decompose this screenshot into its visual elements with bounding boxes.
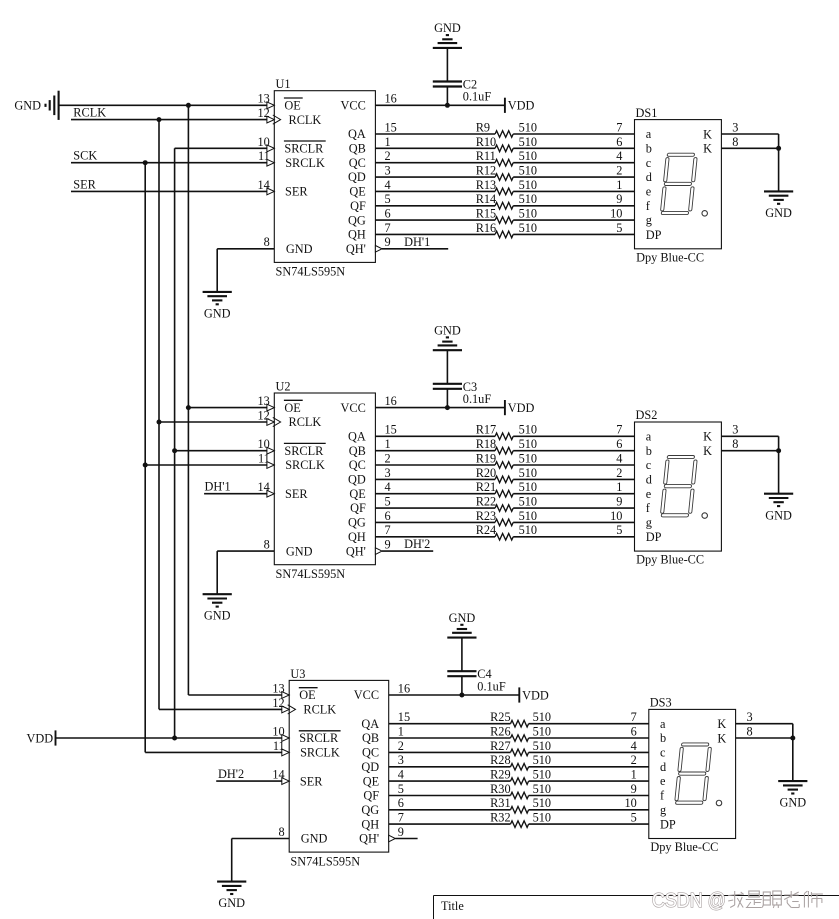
svg-text:510: 510 <box>519 164 537 178</box>
svg-text:8: 8 <box>279 825 285 839</box>
wire U2 QC to R19 <box>375 464 495 466</box>
svg-text:9: 9 <box>616 192 622 206</box>
svg-text:RCLK: RCLK <box>303 703 336 717</box>
wire R25 to DS3 segment <box>529 723 649 725</box>
svg-text:RCLK: RCLK <box>289 113 322 127</box>
svg-text:9: 9 <box>398 825 404 839</box>
svg-text:SN74LS595N: SN74LS595N <box>276 567 346 581</box>
svg-text:16: 16 <box>385 394 397 408</box>
junction K net <box>776 146 781 151</box>
wire U2 QH to R24 <box>375 536 495 538</box>
ground at DS2 <box>764 494 793 523</box>
svg-text:12: 12 <box>258 106 270 120</box>
pin numbers 3 and 8 <box>747 710 753 738</box>
DS3 decimal point <box>716 800 722 806</box>
svg-text:10: 10 <box>610 207 622 221</box>
wire VDD to U3 pin10 <box>56 737 283 739</box>
wire OE bus to U3 pin13 <box>188 694 282 696</box>
svg-text:QH': QH' <box>346 544 366 558</box>
svg-text:R19: R19 <box>476 451 497 465</box>
resistor R17 510 <box>476 423 537 440</box>
U2 input pin arrows <box>267 404 281 497</box>
svg-text:VCC: VCC <box>341 401 366 415</box>
svg-text:6: 6 <box>385 509 391 523</box>
wire VCC pin16 U2 <box>375 407 505 409</box>
svg-text:510: 510 <box>519 451 537 465</box>
wire ground to C3 <box>446 350 448 384</box>
svg-text:7: 7 <box>631 710 637 724</box>
svg-text:10: 10 <box>610 509 622 523</box>
svg-text:d: d <box>646 170 652 184</box>
svg-text:R20: R20 <box>476 466 497 480</box>
svg-text:GND: GND <box>218 896 245 910</box>
svg-text:R18: R18 <box>476 437 497 451</box>
U1 pin labels <box>284 98 366 256</box>
svg-text:SRCLR: SRCLR <box>299 731 339 745</box>
wire U3 QD to R28 <box>389 766 511 768</box>
node DH'1 at U2 SER <box>204 480 267 494</box>
svg-text:10: 10 <box>625 796 637 810</box>
svg-text:5: 5 <box>616 221 622 235</box>
junction RCLK bus at U2 <box>157 420 162 425</box>
resistor R13 510 <box>476 178 537 195</box>
IC U3 SN74LS595N <box>289 667 389 869</box>
svg-text:2: 2 <box>631 753 637 767</box>
junction SCK bus at U2 <box>143 463 148 468</box>
wire R17 to DS2 segment <box>513 435 634 437</box>
svg-text:QH: QH <box>348 228 366 242</box>
svg-text:11: 11 <box>258 451 270 465</box>
wire DS2 pin8 K <box>721 450 778 452</box>
junction C3/VCC <box>445 405 450 410</box>
pin numbers 3 and 8 <box>732 423 738 451</box>
svg-text:g: g <box>646 516 652 530</box>
resistor R30 510 <box>490 782 551 799</box>
wire DS2 pin3 K <box>721 435 778 437</box>
wire R29 to DS3 segment <box>529 780 649 782</box>
svg-text:GND: GND <box>449 611 476 625</box>
svg-text:4: 4 <box>398 768 404 782</box>
svg-text:R22: R22 <box>476 494 497 508</box>
svg-text:SRCLR: SRCLR <box>284 444 324 458</box>
svg-text:R31: R31 <box>490 796 511 810</box>
wire DS3 pin8 K <box>736 737 793 739</box>
svg-text:1: 1 <box>631 768 637 782</box>
svg-text:b: b <box>660 731 666 745</box>
wire U2 QD to R20 <box>375 478 495 480</box>
svg-text:3: 3 <box>747 710 753 724</box>
wire U2 QG to R23 <box>375 521 495 523</box>
svg-text:3: 3 <box>732 120 738 134</box>
junction K net <box>776 448 781 453</box>
svg-text:6: 6 <box>616 437 622 451</box>
wire U2 QE to R21 <box>375 493 495 495</box>
wire R32 to DS3 segment <box>529 823 649 825</box>
svg-text:U1: U1 <box>276 77 291 91</box>
wire VCC pin16 U1 <box>375 104 505 106</box>
ground above C4 <box>447 611 476 638</box>
svg-text:c: c <box>646 156 652 170</box>
svg-text:QD: QD <box>361 760 379 774</box>
wire RCLK bus to U2 pin12 <box>159 421 267 423</box>
junction K net <box>790 736 795 741</box>
junction RCLK bus <box>157 117 162 122</box>
wire OE bus to U2 pin13 <box>188 407 267 409</box>
svg-text:QC: QC <box>349 156 366 170</box>
resistor R28 510 <box>490 753 551 770</box>
resistor R32 510 <box>490 811 551 828</box>
wire K common down <box>778 436 780 493</box>
wire R10 to DS1 segment <box>513 147 634 149</box>
wire R22 to DS2 segment <box>513 507 634 509</box>
svg-text:510: 510 <box>533 753 551 767</box>
ground above C3 <box>433 323 462 350</box>
svg-text:3: 3 <box>398 753 404 767</box>
wire U1 QF to R14 <box>375 205 495 207</box>
resistor R24 510 <box>476 523 537 540</box>
svg-text:DH'2: DH'2 <box>404 537 430 551</box>
svg-text:DS2: DS2 <box>636 408 658 422</box>
svg-text:6: 6 <box>631 724 637 738</box>
svg-text:R29: R29 <box>490 768 511 782</box>
wire U3 QC to R27 <box>389 751 511 753</box>
svg-text:9: 9 <box>385 538 391 552</box>
svg-text:R27: R27 <box>490 739 511 753</box>
U3 right pin numbers <box>398 681 410 839</box>
capacitor C3 0.1uF <box>433 380 492 406</box>
svg-text:15: 15 <box>385 120 397 134</box>
wire U2 QA to R17 <box>375 435 495 437</box>
svg-text:QB: QB <box>349 142 366 156</box>
power VDD at U2 VCC <box>505 400 535 415</box>
svg-text:K: K <box>717 717 726 731</box>
wire R11 to DS1 segment <box>513 162 634 164</box>
svg-text:7: 7 <box>616 120 622 134</box>
wire U3 QA to R25 <box>389 723 511 725</box>
wire U1 QD to R12 <box>375 176 495 178</box>
resistor R12 510 <box>476 164 537 181</box>
svg-text:e: e <box>646 487 652 501</box>
svg-text:VDD: VDD <box>508 401 535 415</box>
wire U3 GND pin8 <box>232 838 290 840</box>
svg-text:R17: R17 <box>476 423 497 437</box>
U2 QH' output arrow <box>375 548 382 555</box>
wire U3 QF to R30 <box>389 795 511 797</box>
wire R27 to DS3 segment <box>529 751 649 753</box>
svg-text:510: 510 <box>519 120 537 134</box>
ground at U2 <box>203 594 232 622</box>
resistor R9 510 <box>476 120 537 137</box>
wire U1 QE to R13 <box>375 190 495 192</box>
wire U3 QB to R26 <box>389 737 511 739</box>
svg-text:8: 8 <box>264 235 270 249</box>
wire U1 GND down <box>216 249 218 292</box>
svg-text:RCLK: RCLK <box>73 106 106 120</box>
resistor R21 510 <box>476 480 537 497</box>
svg-text:c: c <box>660 746 666 760</box>
title block <box>434 896 839 919</box>
svg-text:DH'1: DH'1 <box>205 480 231 494</box>
svg-text:VDD: VDD <box>508 99 535 113</box>
ground at U3 <box>217 882 246 910</box>
svg-text:14: 14 <box>258 178 270 192</box>
svg-text:2: 2 <box>616 466 622 480</box>
wire R30 to DS3 segment <box>529 795 649 797</box>
svg-text:g: g <box>660 803 666 817</box>
svg-text:b: b <box>646 444 652 458</box>
resistor R19 510 <box>476 451 537 468</box>
wire SCK bus vertical <box>144 163 146 753</box>
svg-text:3: 3 <box>732 423 738 437</box>
svg-text:510: 510 <box>519 192 537 206</box>
resistor R23 510 <box>476 509 537 526</box>
resistor R31 510 <box>490 796 551 813</box>
watermark CSDN <box>652 890 823 912</box>
display DS1 Dpy Blue-CC <box>635 106 722 265</box>
wire DS1 pin8 K <box>721 147 778 149</box>
node SER <box>71 177 267 191</box>
wire K common down <box>778 134 780 191</box>
pin numbers 3 and 8 <box>732 120 738 148</box>
U3 input pin arrows <box>282 692 296 785</box>
node DH'2 wire from U2 QH' <box>382 537 433 551</box>
svg-text:R26: R26 <box>490 724 511 738</box>
svg-text:16: 16 <box>385 92 397 106</box>
svg-text:e: e <box>660 774 666 788</box>
node SCK <box>71 149 267 163</box>
resistor R27 510 <box>490 739 551 756</box>
wire R24 to DS2 segment <box>513 536 634 538</box>
svg-text:510: 510 <box>533 811 551 825</box>
svg-text:SRCLK: SRCLK <box>285 156 325 170</box>
svg-text:510: 510 <box>519 221 537 235</box>
svg-text:6: 6 <box>398 796 404 810</box>
svg-text:1: 1 <box>398 724 404 738</box>
svg-text:g: g <box>646 213 652 227</box>
wire R31 to DS3 segment <box>529 809 649 811</box>
wire U1 QC to R11 <box>375 162 495 164</box>
svg-text:R11: R11 <box>476 149 496 163</box>
resistor R10 510 <box>476 135 537 152</box>
svg-text:QH': QH' <box>346 242 366 256</box>
svg-text:DP: DP <box>660 817 676 831</box>
svg-text:CSDN @: CSDN @ <box>652 890 726 912</box>
svg-text:12: 12 <box>258 408 270 422</box>
svg-text:GND: GND <box>434 323 461 337</box>
wire K common down <box>792 724 794 781</box>
svg-text:Dpy Blue-CC: Dpy Blue-CC <box>636 553 704 567</box>
svg-text:5: 5 <box>385 192 391 206</box>
svg-text:4: 4 <box>385 178 391 192</box>
wire U2 GND pin8 <box>217 550 274 552</box>
svg-text:10: 10 <box>258 437 270 451</box>
svg-text:1: 1 <box>616 480 622 494</box>
svg-text:R13: R13 <box>476 178 497 192</box>
svg-text:K: K <box>703 430 712 444</box>
svg-text:OE: OE <box>284 99 300 113</box>
svg-text:7: 7 <box>385 221 391 235</box>
svg-text:9: 9 <box>631 782 637 796</box>
wire VCC pin16 U3 <box>389 694 520 696</box>
svg-text:DP: DP <box>646 530 662 544</box>
IC U2 SN74LS595N <box>274 379 375 581</box>
wire C4 to VCC net <box>461 676 463 695</box>
svg-text:DS3: DS3 <box>650 696 672 710</box>
svg-text:14: 14 <box>258 480 270 494</box>
svg-text:510: 510 <box>533 796 551 810</box>
junction C4/VCC <box>459 693 464 698</box>
svg-text:12: 12 <box>272 696 284 710</box>
svg-text:b: b <box>646 141 652 155</box>
power VDD at U1 VCC <box>505 98 535 113</box>
U3 QH' output arrow <box>389 835 396 842</box>
U1 left pin numbers <box>258 92 270 250</box>
svg-text:QF: QF <box>350 199 366 213</box>
svg-text:4: 4 <box>616 149 622 163</box>
svg-text:11: 11 <box>258 149 270 163</box>
wire U1 QA to R9 <box>375 133 495 135</box>
svg-text:6: 6 <box>616 135 622 149</box>
resistor R11 510 <box>476 149 537 166</box>
wire U3 QH to R32 <box>389 823 511 825</box>
wire U3 GND down <box>231 839 233 882</box>
svg-text:Title: Title <box>441 899 464 913</box>
U2 left pin numbers <box>258 394 270 552</box>
U2 right pin numbers <box>385 394 397 552</box>
svg-text:c: c <box>646 458 652 472</box>
svg-text:5: 5 <box>631 811 637 825</box>
svg-text:13: 13 <box>258 92 270 106</box>
wire ground to C2 <box>446 48 448 82</box>
svg-text:510: 510 <box>533 768 551 782</box>
wire R15 to DS1 segment <box>513 219 634 221</box>
capacitor C2 0.1uF <box>433 78 492 104</box>
svg-text:QH': QH' <box>359 832 379 846</box>
svg-text:GND: GND <box>14 98 41 112</box>
wire R23 to DS2 segment <box>513 521 634 523</box>
svg-text:QF: QF <box>363 789 379 803</box>
junction OE bus <box>186 103 191 108</box>
svg-text:QD: QD <box>348 473 366 487</box>
resistor R20 510 <box>476 466 537 483</box>
svg-text:510: 510 <box>519 437 537 451</box>
svg-text:510: 510 <box>519 149 537 163</box>
display DS3 Dpy Blue-CC <box>649 696 736 855</box>
resistor R22 510 <box>476 494 537 511</box>
svg-text:510: 510 <box>533 739 551 753</box>
svg-text:13: 13 <box>272 681 284 695</box>
svg-text:510: 510 <box>533 782 551 796</box>
svg-text:QA: QA <box>348 430 366 444</box>
DS3 seven-segment digit <box>674 743 711 804</box>
svg-text:R25: R25 <box>490 710 511 724</box>
svg-text:4: 4 <box>616 451 622 465</box>
svg-text:5: 5 <box>385 494 391 508</box>
wire U2 GND down <box>216 551 218 594</box>
wire RCLK bus vertical <box>158 120 160 710</box>
node RCLK <box>71 106 267 120</box>
wire U1 QB to R10 <box>375 147 495 149</box>
svg-text:a: a <box>646 429 652 443</box>
svg-text:0.1uF: 0.1uF <box>463 392 492 406</box>
svg-text:GND: GND <box>286 242 313 256</box>
svg-text:10: 10 <box>272 724 284 738</box>
svg-text:2: 2 <box>385 451 391 465</box>
svg-text:R30: R30 <box>490 782 511 796</box>
svg-text:7: 7 <box>398 811 404 825</box>
svg-text:SRCLK: SRCLK <box>300 746 340 760</box>
svg-text:QB: QB <box>362 731 379 745</box>
svg-text:SER: SER <box>285 185 308 199</box>
svg-text:QB: QB <box>349 444 366 458</box>
svg-text:Dpy Blue-CC: Dpy Blue-CC <box>650 840 718 854</box>
svg-text:GND: GND <box>204 306 231 320</box>
wire R28 to DS3 segment <box>529 766 649 768</box>
svg-text:510: 510 <box>519 466 537 480</box>
wire R18 to DS2 segment <box>513 450 634 452</box>
svg-text:4: 4 <box>385 480 391 494</box>
svg-text:QA: QA <box>361 717 379 731</box>
wire R19 to DS2 segment <box>513 464 634 466</box>
DS2 segment labels <box>646 429 712 544</box>
node DH'1 wire from U1 QH' <box>382 235 448 249</box>
svg-text:SRCLR: SRCLR <box>284 142 324 156</box>
wire SRCLR bus to U2 pin10 <box>175 450 268 452</box>
resistor R29 510 <box>490 768 551 785</box>
capacitor C4 0.1uF <box>447 667 506 693</box>
svg-text:K: K <box>703 444 712 458</box>
svg-text:R12: R12 <box>476 164 497 178</box>
wire SCK bus to U3 pin11 <box>145 751 282 753</box>
svg-text:QF: QF <box>350 501 366 515</box>
svg-text:510: 510 <box>519 494 537 508</box>
svg-text:R21: R21 <box>476 480 497 494</box>
svg-text:QG: QG <box>361 803 379 817</box>
U1 QH' output arrow <box>375 246 382 253</box>
DS1 segment labels <box>646 127 712 242</box>
svg-text:OE: OE <box>299 688 315 702</box>
svg-text:R23: R23 <box>476 509 497 523</box>
svg-text:R16: R16 <box>476 221 497 235</box>
wire U1 QG to R15 <box>375 219 495 221</box>
svg-text:1: 1 <box>616 178 622 192</box>
wire U3 QG to R31 <box>389 809 511 811</box>
svg-text:8: 8 <box>732 437 738 451</box>
svg-text:GND: GND <box>765 508 792 522</box>
svg-text:R10: R10 <box>476 135 497 149</box>
junction SRCLR bus at U2 <box>172 448 177 453</box>
svg-text:QE: QE <box>349 185 365 199</box>
svg-text:510: 510 <box>533 724 551 738</box>
svg-text:GND: GND <box>286 544 313 558</box>
resistor R15 510 <box>476 207 537 224</box>
svg-text:a: a <box>646 127 652 141</box>
svg-text:1: 1 <box>385 437 391 451</box>
svg-text:SER: SER <box>73 177 96 191</box>
svg-text:OE: OE <box>284 401 300 415</box>
svg-text:DH'1: DH'1 <box>404 235 430 249</box>
svg-text:510: 510 <box>519 423 537 437</box>
svg-text:8: 8 <box>264 538 270 552</box>
wire ground to C4 <box>461 638 463 672</box>
svg-text:0.1uF: 0.1uF <box>463 90 492 104</box>
wire R20 to DS2 segment <box>513 478 634 480</box>
svg-text:d: d <box>646 473 652 487</box>
svg-text:510: 510 <box>519 480 537 494</box>
node VDD left <box>27 730 56 745</box>
svg-text:4: 4 <box>631 739 637 753</box>
ground GND top-left <box>14 91 58 120</box>
